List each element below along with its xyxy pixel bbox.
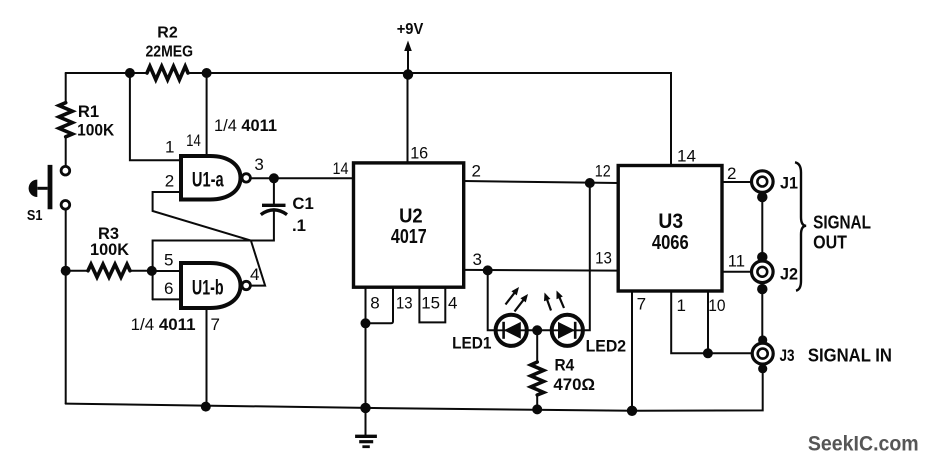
svg-text:14: 14 <box>677 147 696 166</box>
svg-text:7: 7 <box>637 295 646 314</box>
svg-text:4066: 4066 <box>652 232 689 254</box>
svg-text:U2: U2 <box>399 206 423 228</box>
svg-text:C1: C1 <box>292 194 313 213</box>
svg-text:3: 3 <box>473 250 482 269</box>
svg-text:1/4 4011: 1/4 4011 <box>214 116 277 135</box>
svg-text:22MEG: 22MEG <box>146 44 194 61</box>
svg-text:14: 14 <box>333 159 349 178</box>
svg-text:U3: U3 <box>658 210 683 233</box>
svg-text:S1: S1 <box>27 207 43 224</box>
svg-text:+9V: +9V <box>397 21 424 38</box>
svg-text:.1: .1 <box>292 216 306 235</box>
svg-text:16: 16 <box>410 144 428 163</box>
svg-text:J1: J1 <box>780 174 798 193</box>
svg-text:470Ω: 470Ω <box>553 375 595 394</box>
svg-text:LED1: LED1 <box>452 334 491 352</box>
svg-text:R4: R4 <box>555 356 575 375</box>
svg-text:8: 8 <box>370 294 379 313</box>
svg-text:1: 1 <box>165 138 174 157</box>
svg-text:LED2: LED2 <box>586 338 627 356</box>
svg-text:5: 5 <box>164 250 173 269</box>
svg-text:2: 2 <box>165 171 174 190</box>
svg-text:J2: J2 <box>780 265 798 284</box>
svg-text:12: 12 <box>595 162 611 181</box>
svg-text:1: 1 <box>677 296 686 315</box>
svg-text:7: 7 <box>211 315 220 334</box>
svg-text:2: 2 <box>472 162 481 181</box>
svg-text:14: 14 <box>186 131 201 150</box>
svg-text:J3: J3 <box>780 346 795 365</box>
svg-text:13: 13 <box>396 294 413 313</box>
svg-text:U1-b: U1-b <box>192 277 224 300</box>
svg-text:4: 4 <box>448 294 457 313</box>
svg-text:1/4 4011: 1/4 4011 <box>131 315 196 334</box>
svg-text:11: 11 <box>728 252 745 271</box>
svg-text:100K: 100K <box>90 240 130 259</box>
svg-text:OUT: OUT <box>813 233 847 253</box>
svg-text:6: 6 <box>164 279 173 298</box>
svg-text:SeekIC.com: SeekIC.com <box>808 433 919 456</box>
svg-text:U1-a: U1-a <box>192 168 224 191</box>
svg-text:R1: R1 <box>78 102 99 121</box>
svg-text:15: 15 <box>421 294 440 313</box>
svg-text:4017: 4017 <box>391 226 427 248</box>
svg-text:2: 2 <box>727 164 736 183</box>
svg-text:10: 10 <box>708 296 725 315</box>
svg-text:100K: 100K <box>77 120 115 139</box>
svg-text:4: 4 <box>250 265 259 284</box>
svg-text:3: 3 <box>254 155 263 174</box>
svg-text:SIGNAL: SIGNAL <box>813 212 871 232</box>
svg-text:R2: R2 <box>157 25 178 42</box>
svg-text:SIGNAL IN: SIGNAL IN <box>808 346 892 366</box>
svg-text:13: 13 <box>595 248 612 267</box>
